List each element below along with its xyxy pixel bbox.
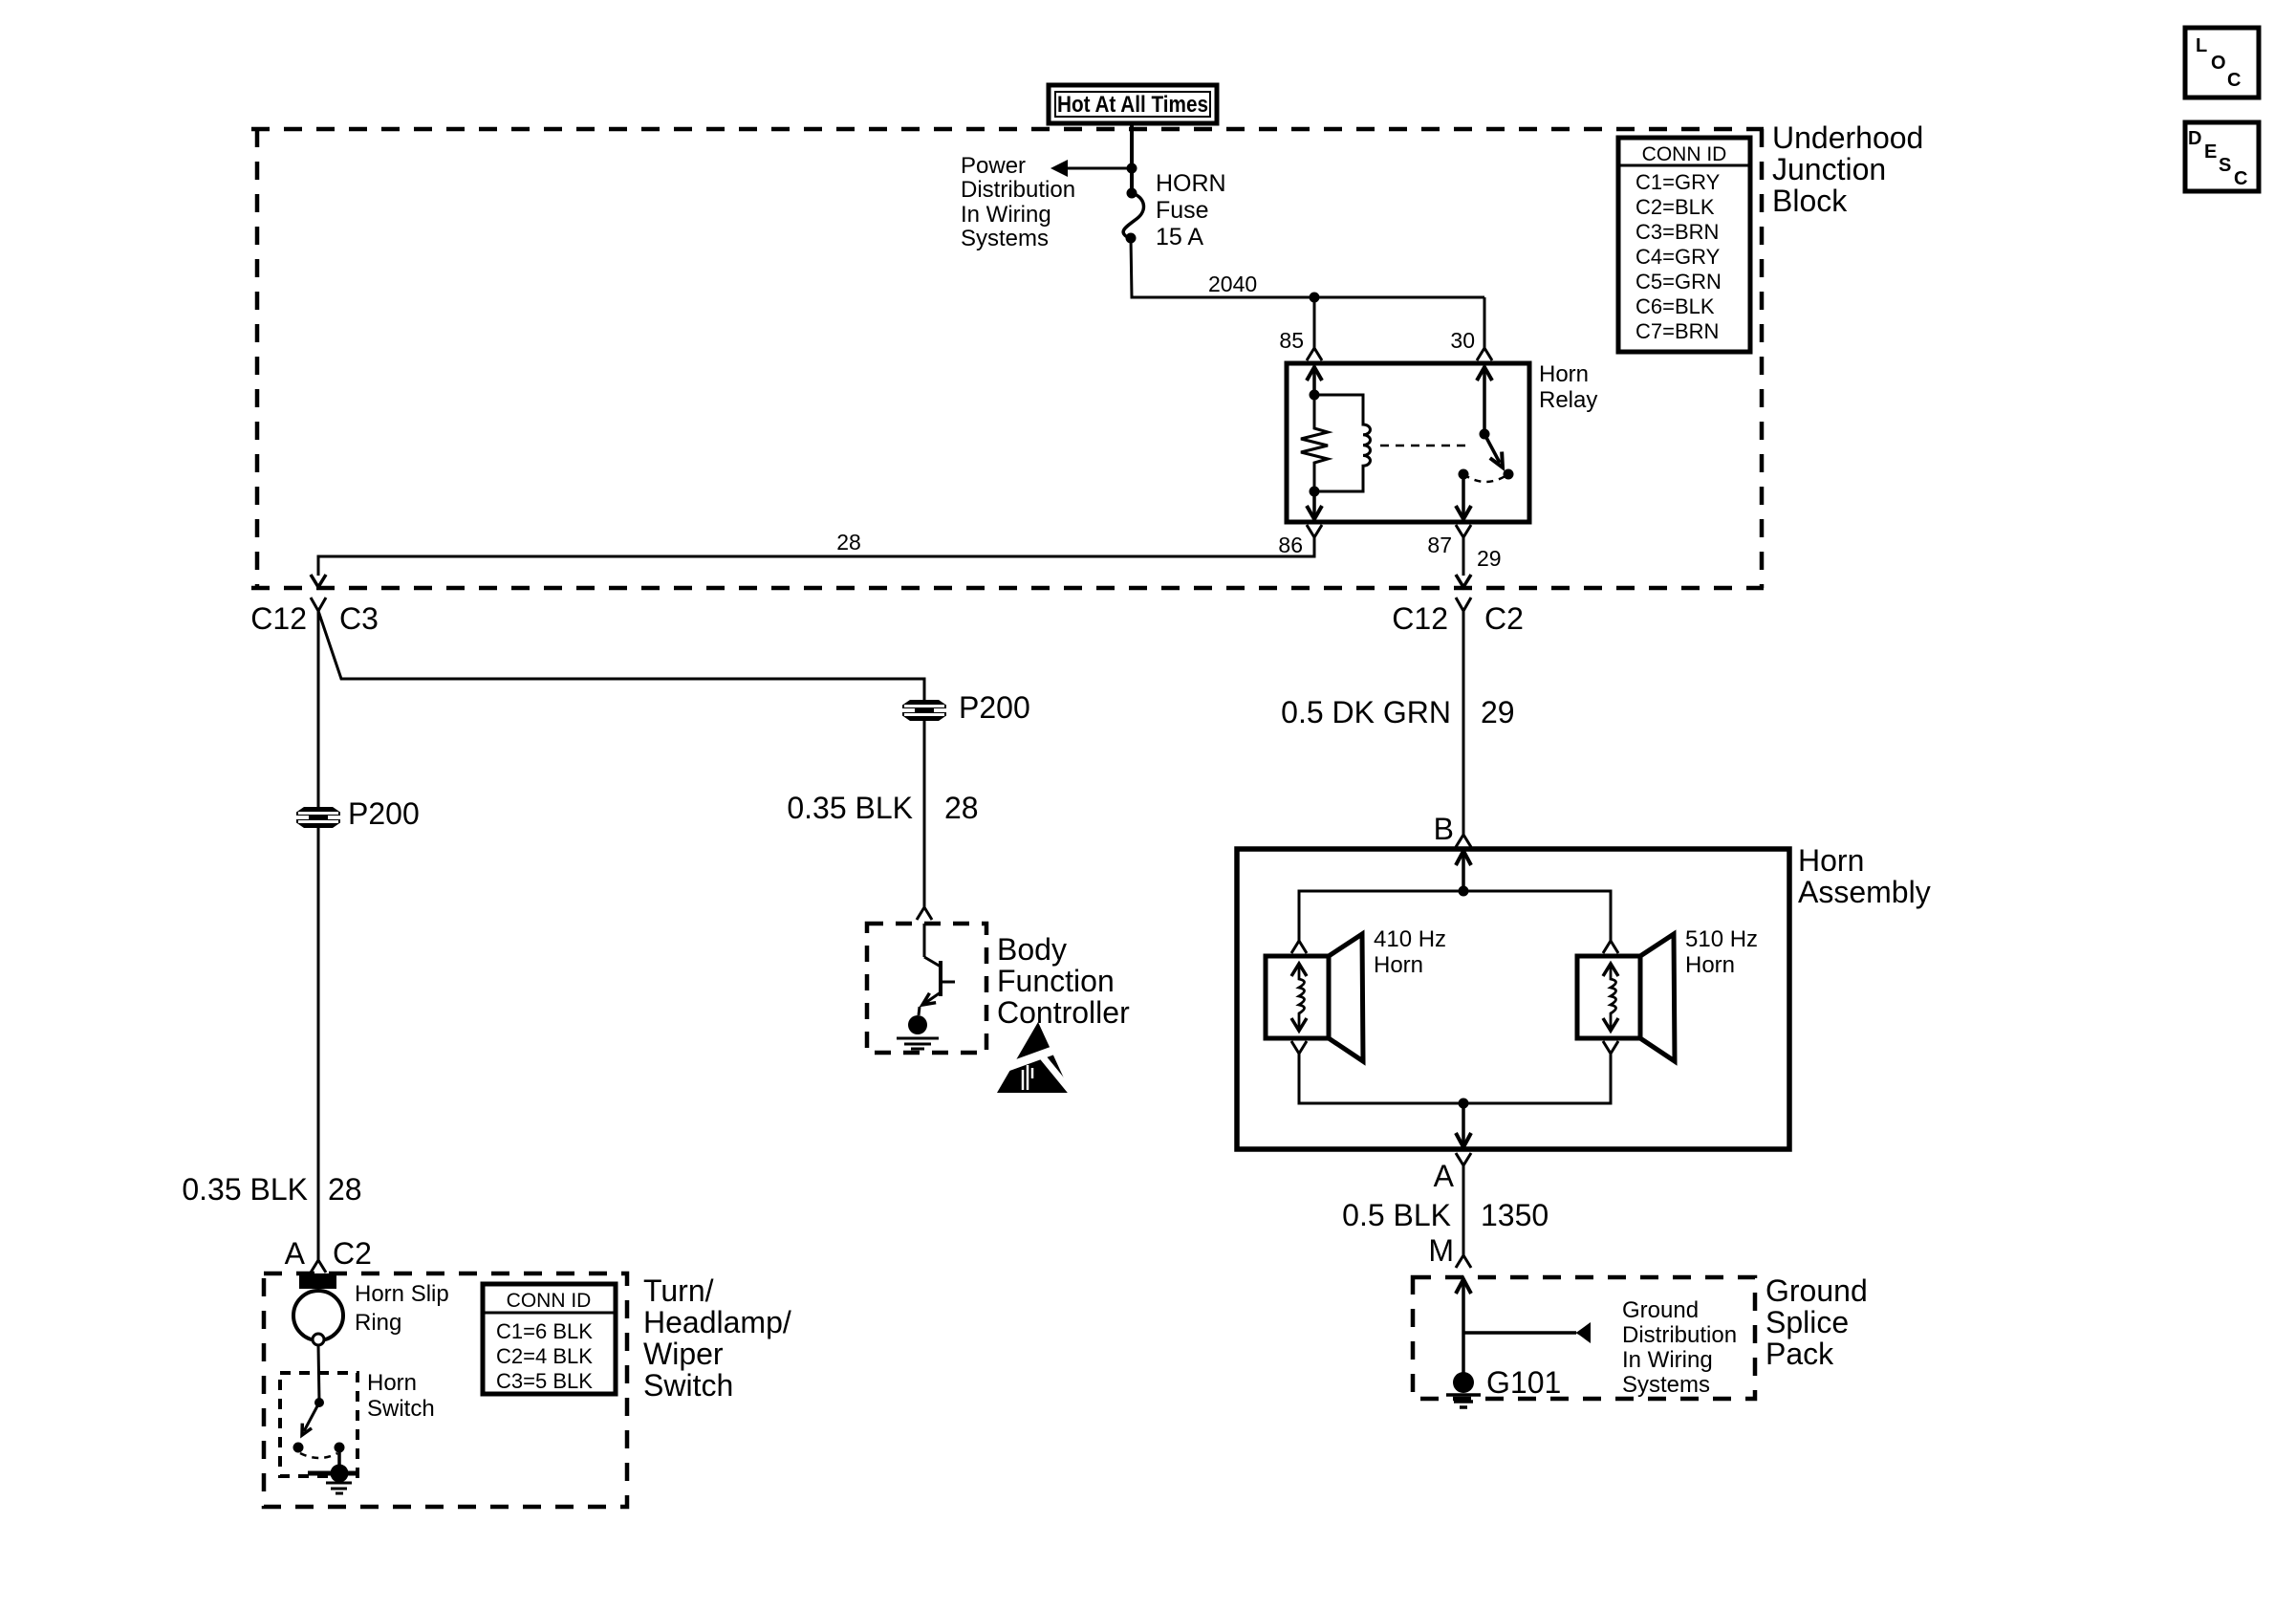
svg-text:Horn Slip: Horn Slip xyxy=(355,1281,449,1307)
B terminal arrow inside horn assembly xyxy=(1456,851,1471,865)
relay switch pivot node xyxy=(1480,429,1490,440)
connector fork at M xyxy=(1456,1255,1471,1268)
svg-text:Splice: Splice xyxy=(1765,1305,1849,1339)
Ground Splice Pack dashed box xyxy=(1413,1277,1755,1399)
wire: left column down from C12/C3 xyxy=(317,611,320,808)
wire down to BFC xyxy=(923,721,926,907)
svg-text:A: A xyxy=(1434,1159,1455,1193)
splice P200 (right branch) xyxy=(902,700,946,721)
svg-text:C: C xyxy=(2227,70,2241,91)
fuse HORN 15A (S-curve element) xyxy=(1123,188,1143,244)
wire continues down to horn slip ring xyxy=(317,828,320,1260)
svg-text:Headlamp/: Headlamp/ xyxy=(643,1305,791,1339)
M terminal arrow inside ground splice pack xyxy=(1456,1279,1471,1294)
ground node G101 xyxy=(1453,1372,1474,1393)
horn slip ring xyxy=(293,1291,343,1340)
svg-text:Wiper: Wiper xyxy=(643,1337,724,1371)
pin 86 terminal arrow (inside relay, pointing down) xyxy=(1312,491,1316,518)
ESD sensitivity symbol xyxy=(997,1022,1073,1095)
junction node on 2040 wire xyxy=(1310,293,1320,303)
svg-text:C: C xyxy=(2234,168,2247,189)
resistor (relay suppression resistor) xyxy=(1301,395,1328,491)
feed junction node xyxy=(1459,886,1469,897)
node junction dot at power branch xyxy=(1127,163,1137,174)
svg-text:Switch: Switch xyxy=(643,1368,733,1403)
relay switch contact node xyxy=(1504,469,1514,480)
svg-text:Turn/: Turn/ xyxy=(643,1273,714,1308)
Body Function Controller label xyxy=(997,932,1130,1030)
svg-text:Distribution: Distribution xyxy=(961,177,1075,203)
relay switch arm with arrowhead xyxy=(1484,434,1500,463)
svg-text:Controller: Controller xyxy=(997,995,1130,1030)
Power Distribution In Wiring Systems label xyxy=(961,153,1075,251)
horn slip ring contact block xyxy=(299,1273,336,1289)
wire from Hot At All Times down to fuse xyxy=(1130,123,1134,193)
dashed travel arc xyxy=(300,1453,337,1458)
svg-text:87: 87 xyxy=(1427,533,1452,557)
svg-text:C7=BRN: C7=BRN xyxy=(1635,319,1719,343)
svg-text:C2: C2 xyxy=(333,1236,372,1271)
svg-text:Horn: Horn xyxy=(367,1370,417,1396)
svg-text:In Wiring: In Wiring xyxy=(961,202,1051,228)
svg-text:C1=GRY: C1=GRY xyxy=(1635,170,1721,194)
wire drop to relay pin 85 xyxy=(1313,297,1316,348)
svg-text:Pack: Pack xyxy=(1765,1337,1834,1371)
connector fork below pin 87 xyxy=(1456,525,1471,537)
Horn Assembly box xyxy=(1237,849,1789,1149)
svg-text:Ground: Ground xyxy=(1622,1297,1699,1323)
svg-text:C2=BLK: C2=BLK xyxy=(1635,195,1715,219)
relay coil winding xyxy=(1314,395,1371,491)
wire from C12/C2 down to horn assembly xyxy=(1462,611,1465,835)
svg-text:B: B xyxy=(1434,812,1454,846)
svg-text:Body: Body xyxy=(997,932,1067,967)
svg-text:C12: C12 xyxy=(250,601,307,636)
svg-text:Underhood: Underhood xyxy=(1772,120,1923,155)
svg-text:28: 28 xyxy=(328,1172,362,1207)
ground bar and node xyxy=(308,1471,357,1476)
connector fork at 410 Hz horn xyxy=(1291,941,1307,953)
Horn Switch label xyxy=(367,1370,435,1422)
410 Hz horn coil xyxy=(1291,964,1307,1031)
ground rail from both horns xyxy=(1299,1054,1611,1103)
svg-text:Ring: Ring xyxy=(355,1310,401,1336)
wire from fuse down and right (circuit 2040) xyxy=(1131,238,1484,297)
svg-text:Horn: Horn xyxy=(1539,361,1589,387)
svg-text:Block: Block xyxy=(1772,184,1848,218)
DESC reference box xyxy=(2185,122,2259,191)
410 Hz horn body xyxy=(1266,956,1329,1038)
pin 87 terminal arrow (inside relay, pointing down) xyxy=(1462,474,1465,518)
svg-text:CONN ID: CONN ID xyxy=(1642,143,1727,165)
wire contact to ground xyxy=(337,1447,341,1473)
horn switch open contact node xyxy=(293,1443,304,1453)
svg-text:Ground: Ground xyxy=(1765,1273,1868,1308)
connector fork at 510 Hz horn xyxy=(1603,941,1618,953)
svg-text:Horn: Horn xyxy=(1798,843,1864,878)
Horn Relay box xyxy=(1287,363,1529,522)
svg-text:Switch: Switch xyxy=(367,1396,435,1422)
510 Hz horn body xyxy=(1577,956,1640,1038)
node: coil bottom junction xyxy=(1310,487,1320,497)
510 Hz horn coil xyxy=(1603,964,1618,1031)
svg-text:510 Hz: 510 Hz xyxy=(1685,926,1758,952)
connector fork below pin 86 xyxy=(1307,525,1322,537)
connector fork at BFC entry xyxy=(917,907,932,920)
wire to A terminal with down arrow xyxy=(1462,1103,1465,1145)
svg-text:28: 28 xyxy=(944,791,979,825)
svg-text:E: E xyxy=(2204,141,2217,163)
svg-text:C4=GRY: C4=GRY xyxy=(1635,245,1721,269)
svg-text:Systems: Systems xyxy=(961,226,1049,251)
svg-text:Systems: Systems xyxy=(1622,1372,1710,1398)
svg-text:0.35 BLK: 0.35 BLK xyxy=(182,1172,308,1207)
pin 85 male terminal arrow (inside relay) xyxy=(1307,367,1322,381)
arrow down at dashed boundary (left) xyxy=(311,575,326,587)
svg-text:S: S xyxy=(2219,155,2231,176)
svg-text:C2: C2 xyxy=(1484,601,1524,636)
ground symbol inside BFC xyxy=(897,1038,939,1049)
svg-text:C3: C3 xyxy=(339,601,379,636)
dashed arc pin87 to contact xyxy=(1463,474,1508,482)
svg-text:P200: P200 xyxy=(348,796,420,831)
svg-text:A: A xyxy=(285,1236,306,1271)
svg-text:Horn: Horn xyxy=(1685,952,1735,978)
connector fork below 510 Hz horn xyxy=(1603,1041,1618,1054)
svg-text:Fuse: Fuse xyxy=(1156,197,1209,224)
svg-text:15 A: 15 A xyxy=(1156,224,1203,250)
Hot At All Times power feed box xyxy=(1049,85,1217,123)
connector fork below 410 Hz horn xyxy=(1291,1041,1307,1054)
svg-text:C1=6 BLK: C1=6 BLK xyxy=(496,1319,593,1343)
wire: branch to body function controller xyxy=(318,611,924,700)
svg-text:P200: P200 xyxy=(959,690,1030,725)
svg-text:85: 85 xyxy=(1279,328,1304,353)
ground symbol G101 xyxy=(1446,1395,1481,1407)
svg-text:Power: Power xyxy=(961,153,1026,179)
ground symbol xyxy=(326,1483,352,1493)
svg-text:C6=BLK: C6=BLK xyxy=(1635,294,1715,318)
horn switch pivot node xyxy=(314,1398,324,1407)
svg-text:Horn: Horn xyxy=(1374,952,1423,978)
pin 30 male terminal arrow (inside relay) xyxy=(1477,367,1492,381)
ground rail junction node xyxy=(1459,1099,1469,1109)
410 Hz Horn label xyxy=(1374,926,1446,978)
feed rail to both horns xyxy=(1299,891,1611,941)
CONN ID table (switch) xyxy=(483,1284,616,1394)
svg-text:29: 29 xyxy=(1477,546,1502,571)
svg-text:Junction: Junction xyxy=(1772,152,1886,186)
connector fork at A / C2 xyxy=(311,1260,326,1273)
wire slip ring to horn switch xyxy=(318,1345,319,1403)
svg-text:HORN: HORN xyxy=(1156,170,1226,197)
Horn Relay label xyxy=(1539,361,1597,413)
connector fork C12/C3 (left) xyxy=(311,598,326,611)
svg-text:28: 28 xyxy=(836,530,861,555)
svg-text:O: O xyxy=(2211,53,2226,74)
connector fork C12/C2 (right) xyxy=(1456,598,1471,611)
arrow to power distribution (solid left arrowhead) xyxy=(1051,160,1068,177)
510 Hz Horn label xyxy=(1685,926,1758,978)
svg-text:L: L xyxy=(2196,35,2207,56)
Horn Assembly label xyxy=(1798,843,1931,909)
Turn/Headlamp/Wiper Switch label xyxy=(643,1273,791,1403)
connector fork at pin 30 xyxy=(1477,344,1492,360)
svg-text:C3=5 BLK: C3=5 BLK xyxy=(496,1369,593,1393)
pin 87 node xyxy=(1459,469,1469,480)
connector fork at B xyxy=(1456,835,1471,847)
dashed mechanical link coil to switch xyxy=(1380,445,1472,447)
horn switch fixed contact node xyxy=(335,1443,345,1453)
svg-text:1350: 1350 xyxy=(1481,1198,1549,1232)
svg-text:Hot At All Times: Hot At All Times xyxy=(1057,92,1208,118)
svg-text:M: M xyxy=(1428,1233,1454,1268)
Underhood Junction Block label xyxy=(1772,120,1923,218)
svg-text:0.5 DK GRN: 0.5 DK GRN xyxy=(1281,695,1451,729)
svg-text:G101: G101 xyxy=(1486,1365,1561,1400)
svg-text:Assembly: Assembly xyxy=(1798,875,1931,909)
svg-text:29: 29 xyxy=(1481,695,1515,729)
svg-text:0.5 BLK: 0.5 BLK xyxy=(1342,1198,1451,1232)
svg-text:2040: 2040 xyxy=(1208,272,1257,296)
node: coil top junction xyxy=(1310,390,1320,401)
wire drop to relay pin 30 xyxy=(1484,297,1486,348)
wire circuit 29 from pin 87 down xyxy=(1462,537,1465,576)
svg-text:D: D xyxy=(2188,128,2201,149)
arrow down at dashed boundary (right) xyxy=(1456,575,1471,587)
Underhood Junction Block dashed boundary xyxy=(251,129,1764,588)
wire A to M xyxy=(1462,1165,1465,1255)
LOC reference box xyxy=(2185,28,2259,98)
svg-text:C12: C12 xyxy=(1392,601,1448,636)
wire branch to power distribution xyxy=(1065,167,1132,170)
Ground Distribution In Wiring Systems label xyxy=(1622,1297,1737,1398)
svg-text:C5=GRN: C5=GRN xyxy=(1635,270,1722,294)
svg-text:CONN ID: CONN ID xyxy=(507,1290,592,1312)
transistor Q1 output driver xyxy=(919,924,955,1015)
wire circuit 28 from pin 86 across to left side xyxy=(318,537,1314,576)
CONN ID table (Underhood Junction Block) xyxy=(1618,138,1750,352)
svg-text:C2=4 BLK: C2=4 BLK xyxy=(496,1344,593,1368)
Horn Slip Ring label xyxy=(355,1281,449,1336)
ground distribution branch wire xyxy=(1463,1331,1576,1335)
splice P200 (left column) xyxy=(296,807,340,828)
svg-text:Relay: Relay xyxy=(1539,387,1597,413)
svg-text:0.35 BLK: 0.35 BLK xyxy=(787,791,913,825)
svg-text:86: 86 xyxy=(1278,533,1303,557)
Ground Splice Pack label xyxy=(1765,1273,1868,1371)
svg-text:Distribution: Distribution xyxy=(1622,1322,1737,1348)
ground distribution arrowhead xyxy=(1575,1322,1591,1343)
svg-text:In Wiring: In Wiring xyxy=(1622,1347,1713,1373)
ground node inside BFC xyxy=(908,1015,927,1034)
horn switch arm with arrowhead xyxy=(304,1403,319,1431)
Body Function Controller dashed box xyxy=(867,924,986,1053)
connector fork at A xyxy=(1456,1153,1471,1165)
Horn Switch inner dashed box xyxy=(280,1373,357,1476)
svg-text:Function: Function xyxy=(997,964,1115,998)
svg-text:C3=BRN: C3=BRN xyxy=(1635,220,1719,244)
HORN Fuse 15 A label xyxy=(1156,170,1226,250)
svg-text:410 Hz: 410 Hz xyxy=(1374,926,1446,952)
svg-text:30: 30 xyxy=(1450,328,1475,353)
Turn/Headlamp/Wiper Switch dashed box xyxy=(264,1273,627,1507)
connector fork at pin 85 xyxy=(1307,344,1322,360)
